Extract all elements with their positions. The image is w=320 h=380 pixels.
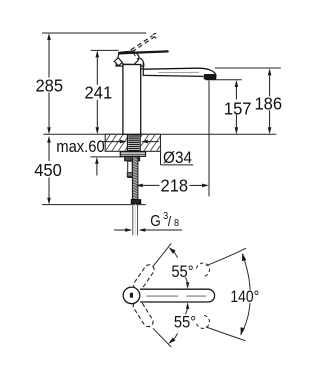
svg-text:55°: 55°: [174, 314, 196, 332]
svg-text:/: /: [168, 213, 172, 229]
svg-text:241: 241: [85, 82, 113, 103]
svg-text:8: 8: [174, 217, 180, 229]
svg-text:Ø34: Ø34: [163, 148, 192, 167]
svg-text:140°: 140°: [230, 288, 259, 307]
svg-text:G: G: [150, 213, 160, 230]
svg-text:max.60: max.60: [56, 138, 105, 156]
svg-text:285: 285: [35, 75, 63, 96]
svg-text:157: 157: [224, 98, 252, 119]
svg-text:218: 218: [160, 175, 188, 196]
svg-text:450: 450: [34, 160, 62, 181]
svg-text:186: 186: [254, 93, 282, 114]
svg-text:55°: 55°: [171, 263, 193, 281]
